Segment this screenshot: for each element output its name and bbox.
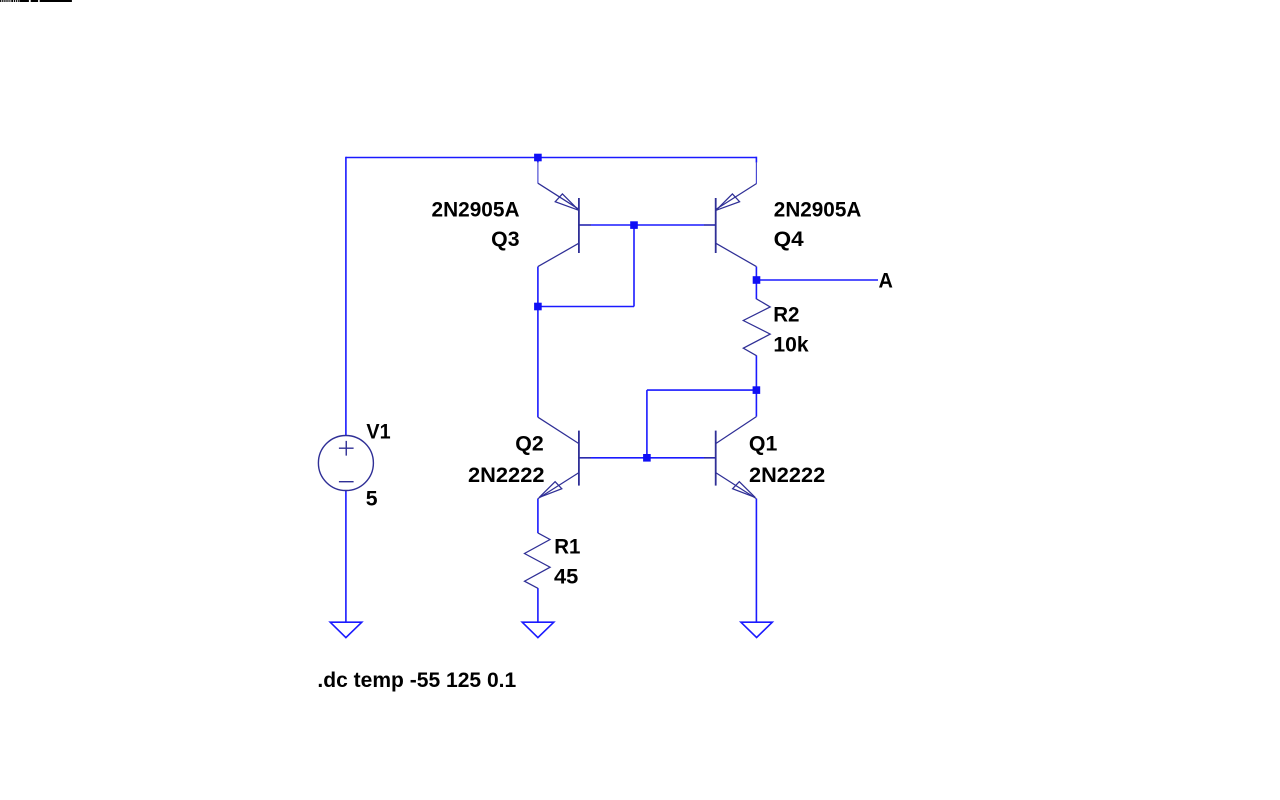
svg-text:2N2222: 2N2222 (749, 464, 825, 487)
transistor Q3 collector line (538, 243, 579, 266)
svg-text:.dc temp -55 125 0.1: .dc temp -55 125 0.1 (317, 669, 516, 692)
wire collector link (538, 306, 634, 308)
transistor Q3 emitter line (538, 183, 579, 209)
wire V1 bottom column (345, 490, 347, 622)
transistor Q1 emitter line (716, 473, 757, 499)
V1 minus sign (339, 481, 354, 483)
wire R1 bottom to ground (537, 588, 539, 622)
wire Q2 emitter to R1 (537, 499, 539, 533)
transistor Q1 emitter arrow (733, 482, 756, 498)
svg-text:2N2222: 2N2222 (468, 464, 545, 487)
transistor Q4 collector line (716, 243, 757, 266)
junction node A (753, 276, 761, 284)
svg-text:Q4: Q4 (774, 228, 804, 251)
wire Q3 collector to Q2 collector (537, 267, 539, 418)
clipped text remnant top-left (0, 0, 72, 2)
transistor Q1 base bar (715, 431, 717, 486)
transistor Q2 emitter line (538, 473, 579, 499)
wire Q4 emitter stub (755, 157, 757, 163)
resistor R1 body (525, 533, 551, 588)
transistor Q4 base stub (704, 224, 716, 226)
svg-text:Q2: Q2 (515, 432, 543, 455)
svg-text:V1: V1 (366, 420, 391, 443)
resistor R2 body (743, 299, 770, 356)
wire base junction drop (633, 225, 635, 307)
transistor Q2 collector line (538, 417, 579, 443)
wire base link Q3-Q4 (580, 224, 716, 226)
wire link drop to bases (646, 390, 648, 458)
svg-text:2N2905A: 2N2905A (774, 198, 862, 221)
svg-text:45: 45 (554, 566, 579, 589)
transistor Q3 base bar (578, 198, 580, 253)
junction node base wire (643, 454, 651, 462)
transistor Q4 base bar (715, 198, 717, 253)
wire R2 bottom link horizontal (647, 389, 757, 391)
ground right (741, 622, 772, 637)
svg-text:Q1: Q1 (749, 432, 778, 455)
svg-text:R2: R2 (773, 303, 799, 326)
svg-text:A: A (879, 270, 893, 293)
wire Q2-Q1 base link (580, 457, 716, 459)
wire Q4 collector to R2 top (755, 267, 757, 300)
wire node A (756, 279, 878, 281)
voltage source V1 circle (318, 436, 373, 491)
transistor Q4 emitter arrow (716, 194, 740, 210)
transistor Q4 emitter line (716, 184, 757, 210)
wire R2 bottom to Q1 collector (755, 356, 757, 417)
wire V1 top column (345, 157, 347, 436)
V1 plus sign (339, 441, 354, 456)
transistor Q3 base stub (579, 224, 591, 226)
wire top rail (346, 157, 757, 159)
wire Q1 emitter to ground (755, 499, 757, 622)
ground middle (522, 622, 554, 637)
transistor Q2 base bar (578, 431, 580, 486)
transistor Q1 base stub (704, 457, 716, 459)
transistor Q3 emitter arrow (555, 194, 579, 210)
junction node bases Q3 Q4 (630, 221, 638, 229)
transistor Q1 collector line (716, 417, 757, 444)
ground left (330, 622, 362, 637)
transistor Q2 base stub (579, 457, 591, 459)
svg-text:Q3: Q3 (491, 228, 519, 251)
svg-text:2N2905A: 2N2905A (432, 198, 520, 221)
transistor Q2 emitter arrow (539, 482, 562, 498)
svg-text:R1: R1 (554, 535, 580, 558)
junction node R2 bottom (753, 386, 761, 394)
svg-text:10k: 10k (773, 333, 809, 356)
svg-text:5: 5 (366, 487, 378, 510)
junction node Q3 collector (534, 303, 542, 311)
junction node top rail (534, 154, 542, 162)
wire Q3 emitter stub (537, 158, 539, 163)
